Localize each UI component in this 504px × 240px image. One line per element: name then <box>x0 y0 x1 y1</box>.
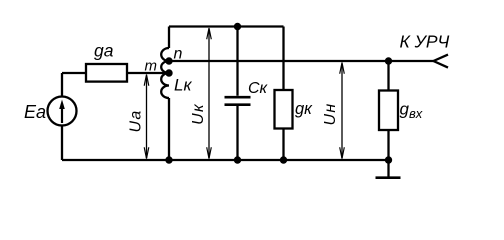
svg-text:gк: gк <box>295 100 313 118</box>
svg-text:gвх: gвх <box>400 100 423 122</box>
svg-text:m: m <box>145 57 158 74</box>
svg-text:Lк: Lк <box>174 76 192 95</box>
svg-text:Ea: Ea <box>24 102 46 122</box>
svg-text:Cк: Cк <box>248 80 269 97</box>
svg-text:ga: ga <box>94 41 114 61</box>
svg-text:Uк: Uк <box>190 103 207 125</box>
svg-text:n: n <box>174 45 183 62</box>
svg-text:Uа: Uа <box>128 109 145 132</box>
svg-text:К УРЧ: К УРЧ <box>400 32 450 52</box>
svg-text:Uн: Uн <box>322 103 339 126</box>
